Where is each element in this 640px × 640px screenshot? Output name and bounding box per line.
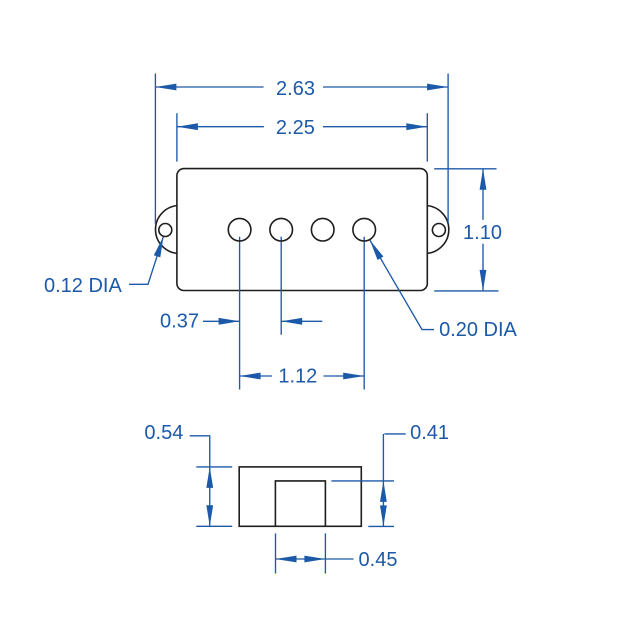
extension line top for 0.54 xyxy=(196,466,232,468)
arrowhead 2.63 right xyxy=(427,84,448,91)
arrowhead 2.25 right xyxy=(406,123,427,130)
extension line right for 2.63 xyxy=(447,74,449,224)
dimension line 1.12 xyxy=(240,375,272,377)
svg-text:0.41: 0.41 xyxy=(410,422,449,444)
dimension line 2.25 xyxy=(177,126,264,128)
dimension line 0.37 left tail xyxy=(203,320,240,322)
extension line top for 1.10 xyxy=(434,168,496,170)
arrowhead 0.54 bottom xyxy=(206,505,213,526)
leader dash for 0.54 xyxy=(190,435,211,437)
dimension line 0.41 xyxy=(382,434,384,527)
dimension line 0.54 xyxy=(209,436,211,527)
extension line left for 2.63 xyxy=(154,74,156,225)
arrowhead 0.37 right pointing left xyxy=(281,318,302,325)
extension line bottom for 0.54 xyxy=(196,525,232,527)
arrowhead 1.10 top xyxy=(480,169,487,190)
extension line top for 0.41 xyxy=(331,480,394,482)
extension line left for 2.25 xyxy=(176,113,178,161)
arrowhead 0.45 right xyxy=(304,556,325,563)
svg-text:0.37: 0.37 xyxy=(160,310,199,332)
pole hole 2 xyxy=(270,218,293,241)
arrowhead 2.63 left xyxy=(155,84,176,91)
mounting ear left lobe xyxy=(156,206,204,254)
white mask behind 1.10 xyxy=(460,223,506,241)
white mask behind 2.25 xyxy=(271,118,323,136)
svg-text:1.10: 1.10 xyxy=(463,222,502,244)
arrowhead 1.10 bottom xyxy=(480,270,487,291)
side view notch xyxy=(275,481,325,526)
dimension line 0.37 right tail xyxy=(281,320,322,322)
arrowhead 2.25 left xyxy=(177,123,198,130)
dimension line 2.63 xyxy=(155,86,263,88)
leader for 0.12 DIA xyxy=(129,236,164,284)
svg-text:0.54: 0.54 xyxy=(144,422,183,444)
svg-text:0.45: 0.45 xyxy=(359,549,398,571)
dimension line 1.10 xyxy=(482,169,484,220)
white mask behind 1.12 xyxy=(274,367,322,385)
arrowhead leader 0.12 DIA xyxy=(154,236,164,257)
extension line bottom for 1.10 xyxy=(434,290,498,292)
arrowhead 0.45 left xyxy=(276,556,297,563)
arrowhead 1.12 right xyxy=(343,373,364,380)
arrowhead 0.54 top xyxy=(206,467,213,488)
pole hole 4 xyxy=(353,218,376,241)
arrowhead 1.12 left xyxy=(240,373,261,380)
svg-text:0.20 DIA: 0.20 DIA xyxy=(439,319,517,341)
extension line right for 2.25 xyxy=(426,113,428,161)
svg-text:0.12 DIA: 0.12 DIA xyxy=(44,275,122,297)
extension line bottom for 0.41 xyxy=(368,525,394,527)
leader dash for 0.41 xyxy=(384,433,405,435)
extension line left for 0.45 xyxy=(275,533,277,573)
svg-text:2.25: 2.25 xyxy=(276,117,315,139)
svg-text:2.63: 2.63 xyxy=(276,78,315,100)
arrowhead 0.41 bottom xyxy=(380,505,387,526)
extension line below hole 1 xyxy=(239,237,241,390)
svg-text:1.12: 1.12 xyxy=(278,366,317,388)
extension line below hole 2 xyxy=(280,237,282,335)
side view outer profile xyxy=(239,467,361,526)
leader for 0.20 DIA xyxy=(370,240,434,330)
dimension line 0.45 xyxy=(276,558,354,560)
arrowhead 0.37 left pointing right xyxy=(219,318,240,325)
pole hole 3 xyxy=(311,218,334,241)
pickup cover body xyxy=(177,169,427,291)
mounting ear right lobe xyxy=(401,206,449,254)
extension line below hole 4 xyxy=(363,237,365,390)
arrowhead 0.41 top xyxy=(380,481,387,502)
ear screw hole left 0.12 DIA xyxy=(159,224,172,237)
ear screw hole right 0.12 DIA xyxy=(432,224,445,237)
white mask behind 2.63 xyxy=(271,79,323,97)
arrowhead leader 0.20 DIA xyxy=(370,240,384,260)
extension line right for 0.45 xyxy=(324,533,326,573)
pole hole 1 xyxy=(228,218,251,241)
